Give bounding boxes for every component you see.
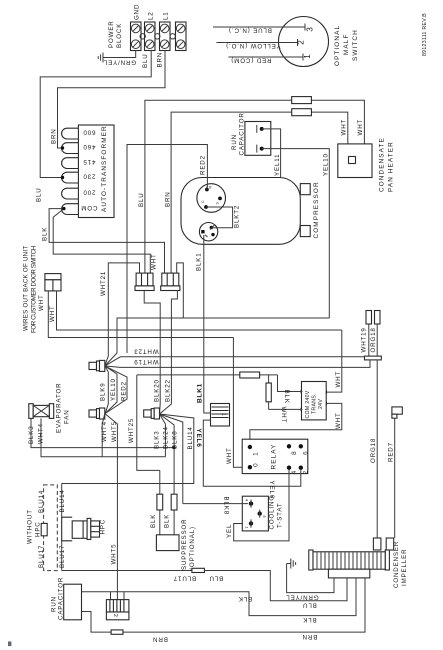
svg-text:BLK22: BLK22 [164,379,171,402]
svg-text:BLU14: BLU14 [59,489,66,512]
wire BLU17 HPC lead down [61,541,63,571]
bullet A fan wires down (BLK9 YEL10 RED2) [105,366,127,414]
compressor mount tab upper [300,184,310,195]
connector tab RED7 [392,407,402,418]
splice F3 on trans feed [240,372,260,378]
wire BRN run to pan heater (lower) [171,112,348,273]
svg-text:BLU14: BLU14 [38,490,45,513]
power block jumper circles [140,34,175,39]
splice BLU17/BLU [192,568,205,572]
svg-text:YEL10: YEL10 [323,153,330,176]
wire BLK3 evap fan lead [31,418,174,447]
junction dot at 460 tap [61,146,64,149]
power block PB1 [131,22,187,51]
svg-text:WHT21: WHT21 [100,271,107,296]
svg-text:WHT23: WHT23 [133,348,158,355]
junction dot at 230 tap [61,176,64,179]
svg-text:PAN HEATER: PAN HEATER [388,141,395,192]
svg-text:BLU17: BLU17 [173,575,196,582]
t-stat terminal 6 [258,511,262,515]
junction dot trans bottom-right [301,408,305,412]
svg-text:MALF: MALF [343,34,350,55]
wire WHT door switch left lead [48,291,233,338]
wire 230V output to conn1 right pin [53,209,150,274]
wire WHT23 from bullet A to splice [105,357,366,366]
wire ORG18 long run down [376,360,378,538]
splice F1 on BLU run [292,97,312,104]
dashed box WITHOUT HPC [44,485,58,571]
bullet C fan wires down (BLK3 BLK24 BLK8 BLU14) [62,414,194,504]
svg-text:RED7: RED7 [388,442,395,462]
wire RED7 run down [394,418,396,538]
wire WHT relay 0 feed [233,338,246,468]
svg-text:BRN: BRN [157,52,164,68]
blade terminal ORG18 bottom [373,538,381,550]
svg-text:WHT19: WHT19 [133,358,158,365]
svg-text:EVAPORATOR: EVAPORATOR [56,383,63,433]
svg-text:BRN: BRN [152,636,168,643]
svg-text:YEL11: YEL11 [274,154,281,176]
svg-text:BLK8: BLK8 [223,497,230,516]
relay terminal 1 [248,445,252,449]
wire BLK from COM tap down to conn2 [49,209,164,274]
compressor mount tab lower [300,226,310,237]
svg-text:BLK1: BLK1 [196,252,203,271]
plug P2 pin leads [111,592,125,600]
wire RED2 compressor R up and to bullet A [127,145,207,354]
svg-text:BLK: BLK [42,227,49,241]
svg-text:GRN/YEL: GRN/YEL [285,594,318,601]
svg-text:ORG18: ORG18 [370,327,377,352]
optional malf switch S2 body [279,17,329,67]
wire BLK to trans 240V input [137,374,278,376]
bullet B fan wires down (WHT4 WHT5 WHT25) [102,414,117,600]
svg-text:BLK: BLK [238,595,252,602]
svg-text:WHT4: WHT4 [101,421,108,442]
wire WHT21 from conn1 area down to bullet A [105,263,140,366]
splice bar WHT19/ORG18 [365,356,382,360]
splice on suppressor lead 1 [157,494,163,510]
wire conn1 bottom to bullet C (BLK20) [144,291,160,415]
svg-text:BLU: BLU [302,602,317,609]
svg-text:BRN: BRN [302,633,318,640]
run capacitor C1 terminal pins [256,125,258,153]
svg-text:(OPTIONAL): (OPTIONAL) [189,526,196,570]
wire BLU run to pan heater (upper) [145,100,365,273]
wire RED (COM) stub to terminal 1 [228,56,303,58]
svg-text:BLK8: BLK8 [171,430,178,449]
svg-text:WHT19: WHT19 [361,327,368,352]
svg-text:BLK1: BLK1 [197,383,204,403]
blade terminal WHT19 [366,311,372,325]
condensate pan heater HTR1 [338,144,372,178]
svg-text:POWER: POWER [108,20,115,48]
svg-text:YELLOW (N.O.): YELLOW (N.O.) [225,42,280,49]
wire YELLOW (N.O.) stub to terminal 2 [216,42,297,44]
svg-text:RELAY: RELAY [271,444,278,470]
plug P1 with pin 1 [211,404,230,427]
svg-text:COOLING: COOLING [269,495,276,530]
overload pin bottom-right [211,233,214,236]
svg-text:WHT: WHT [49,305,56,322]
cooling t-stat S1 box [242,496,268,531]
power block screws row 1 [131,24,185,33]
compressor overload circle [199,223,217,241]
svg-text:OPTIONAL: OPTIONAL [334,25,341,66]
svg-text:WHT: WHT [357,119,364,136]
svg-text:415: 415 [83,158,96,165]
compressor M1 outline [181,178,300,245]
svg-text:WHT5: WHT5 [111,421,118,442]
svg-text:YEL: YEL [226,524,233,538]
wire relay 4 to t-stat YEL [234,470,289,541]
svg-text:T-STAT: T-STAT [277,503,284,529]
svg-text:600: 600 [83,129,96,136]
svg-text:6: 6 [303,450,310,455]
wire YEL11 run cap to compressor S [222,129,281,199]
wire BLK run cap to impeller [82,578,357,616]
plug P2 with pin 2 [106,600,128,620]
svg-text:BLUE (N.C.): BLUE (N.C.) [228,27,272,34]
svg-text:89123111 REV.B: 89123111 REV.B [422,13,428,56]
wire BRN run cap to impeller [82,578,366,632]
malf switch terminal 1 bar [302,54,304,61]
svg-text:YEL10: YEL10 [110,378,117,401]
svg-text:BLU: BLU [142,53,149,68]
svg-text:WHT: WHT [151,253,158,270]
svg-text:BLU17: BLU17 [38,545,45,568]
overload pin left [201,230,204,233]
chassis ground (impeller) [287,559,296,570]
svg-text:200: 200 [83,189,96,196]
svg-text:WHT: WHT [226,447,233,464]
t-stat terminal 4 [249,501,253,505]
svg-text:BLU: BLU [138,192,145,207]
auto-transformer T1 box [78,125,114,218]
svg-text:2: 2 [112,614,118,617]
splice on suppressor lead 2 [171,494,177,510]
page edge marks [8,642,11,647]
svg-text:BLKT2: BLKT2 [234,205,241,228]
wire GRN/YEL from PB1 col1 to chassis ground [107,51,136,58]
svg-text:2: 2 [297,40,306,45]
compressor plug conn2 [161,273,180,290]
svg-text:4: 4 [291,470,298,475]
svg-text:8: 8 [291,450,298,455]
svg-text:BLU: BLU [36,187,43,202]
svg-text:2: 2 [303,470,310,475]
evaporator fan motor B1 [29,404,54,419]
wire YEL10 run cap down right side [262,149,330,318]
wire BRN from PB1 col3 to transformer 460 tap [58,51,166,149]
wire WHT25 suppressor feed run [137,375,160,471]
svg-text:COM 240V: COM 240V [305,390,311,418]
terminal S dot [218,197,222,201]
blade terminal ORG18 [375,311,381,325]
wire BLK1 from overload down to plug P1 [204,235,211,413]
wire WHT4 evap fan lead [41,418,165,456]
wire conn2 right pin loop [177,263,184,318]
condenser impeller fins [317,552,381,569]
svg-text:RED2: RED2 [120,381,127,401]
transformer tap coil bumps [62,128,79,214]
svg-text:YEL6: YEL6 [195,428,202,447]
wire suppressor lead 1 [159,470,161,534]
inline resistor/fuse vertical [268,375,270,410]
door switch connector J1 [45,274,61,291]
svg-text:BLK20: BLK20 [153,379,160,402]
svg-text:WHT: WHT [335,371,342,388]
svg-text:BLU17: BLU17 [59,545,66,568]
wire WHT19 from bullet A to splice [105,359,370,367]
svg-text:IMPELLER: IMPELLER [401,549,408,586]
svg-text:SWITCH: SWITCH [352,29,359,61]
splice on BRN [111,630,123,634]
relay terminal 2 [299,466,303,470]
suppressor Z1 box [156,535,179,551]
svg-text:RED2: RED2 [200,155,207,175]
svg-text:CONDENSATE: CONDENSATE [379,137,386,192]
wire BLKT2 from C to overload [206,207,233,228]
terminal C dot [204,205,208,209]
svg-text:24V: 24V [318,399,324,409]
svg-text:CAPACITOR: CAPACITOR [239,112,246,155]
svg-text:RUN: RUN [51,596,58,612]
svg-text:BLK: BLK [283,390,290,404]
terminal R dot [205,188,209,192]
condenser impeller M2 body [309,550,390,578]
compressor plug conn1 [135,273,154,290]
svg-text:COMPRESSOR: COMPRESSOR [313,181,320,238]
svg-text:COM: COM [81,204,98,211]
wire relay 1 to 240V trans 24V side [250,403,342,443]
transformer T2 240V/24V box [302,382,327,420]
svg-text:WITHOUT: WITHOUT [27,509,34,544]
svg-text:RED (COM): RED (COM) [231,57,272,64]
svg-text:AUTO-TRANSFORMER: AUTO-TRANSFORMER [101,125,108,212]
wire ORG18 terminal lead [376,324,378,356]
chassis ground symbol [98,53,107,63]
wire suppressor lead 2 [173,494,175,535]
svg-text:WHT5: WHT5 [111,544,118,565]
svg-text:230: 230 [83,173,96,180]
svg-text:BRN: BRN [165,191,172,207]
svg-text:WHT: WHT [38,294,45,311]
svg-text:WHT: WHT [335,412,342,429]
svg-text:BLU: BLU [209,575,224,582]
svg-text:WHT25: WHT25 [128,418,135,443]
svg-text:BLK24: BLK24 [163,426,170,449]
svg-text:BLK: BLK [164,514,171,528]
svg-text:BLK3: BLK3 [154,430,161,449]
svg-text:SUPPRESSOR: SUPPRESSOR [181,519,188,570]
bullet connector C [144,408,160,419]
svg-text:BLU14: BLU14 [187,426,194,449]
wire YEL10 horizontal run [105,318,329,366]
svg-text:C: C [201,200,205,203]
svg-text:GRN/YEL: GRN/YEL [103,59,136,66]
wire WHT door switch right lead [57,291,342,330]
svg-text:BLK3: BLK3 [28,425,35,444]
wire WHT trans left bottom stub [269,408,303,410]
svg-text:1: 1 [253,451,260,456]
wire WHT vertical x341.8 (door circuit to 240V trans) [325,330,342,392]
svg-text:WHT4: WHT4 [38,423,45,444]
svg-text:BLK: BLK [150,514,157,528]
wire WHT19 terminal lead [368,324,370,356]
wire BLK8 to t-stat [183,503,248,505]
compressor motor terminal circle [197,184,226,213]
bullet connector A [89,360,105,371]
blade terminal RED7 bottom [386,538,394,550]
malf switch terminal 3 bar [304,24,306,31]
wire from fuse to trans left top [278,375,303,392]
svg-text:WHT: WHT [280,406,287,423]
run capacitor C2 box [64,584,82,620]
svg-text:1: 1 [220,413,226,416]
svg-text:460: 460 [83,143,96,150]
splice on WITHOUT HPC wire [41,523,47,535]
malf switch terminal 2 bar [297,39,299,46]
wire conn2 bottom to bullet C (BLK22) [160,291,178,415]
svg-text:L1: L1 [163,11,170,20]
svg-text:BLK: BLK [302,616,316,623]
overload pin top-right [210,226,213,229]
relay K1 box [242,439,308,473]
svg-text:HPC: HPC [100,519,107,535]
relay terminal 4 [287,466,291,470]
svg-text:WIRES OUT BACK OF UNIT: WIRES OUT BACK OF UNIT [23,245,30,331]
wire BLU17 bottom run to splice [62,570,192,572]
svg-text:GND: GND [134,4,141,20]
svg-text:R: R [209,186,213,189]
svg-text:0: 0 [253,462,260,467]
svg-text:BLK9: BLK9 [100,382,107,401]
t-stat terminal 1 [249,521,253,525]
wire YEL6 from plug P1 to relay 2 [203,420,300,486]
relay terminal 8 [287,444,291,448]
wire GRN/YEL impeller to chassis ground [287,569,334,593]
high pressure control HPC [62,517,100,541]
svg-text:WHT: WHT [341,119,348,136]
wire BLU from PB1 col2 to transformer 230 tap [40,51,151,178]
svg-text:FOR CUSTOMER DOOR SWITCH: FOR CUSTOMER DOOR SWITCH [31,245,38,333]
power block screws row 2 [131,40,185,49]
svg-text:L2: L2 [148,11,155,20]
wire BLUE (N.C.) stub to terminal 3 [213,26,305,28]
wire BLU14 HPC lead down [61,484,63,518]
relay terminal 0 [248,465,252,469]
svg-text:BRN: BRN [51,128,58,144]
junction dot trans top-right [301,390,305,394]
relay terminal 6 [299,444,303,448]
run capacitor C1 box [245,122,271,156]
svg-text:1: 1 [303,54,312,59]
svg-text:FAN: FAN [64,409,71,424]
svg-text:TRANS.: TRANS. [312,393,318,414]
svg-text:CAPACITOR: CAPACITOR [58,577,65,620]
svg-text:ORG18: ORG18 [370,438,377,463]
bullet connector B [89,408,105,419]
wire BLU run to impeller [204,571,347,601]
svg-text:RUN: RUN [231,134,238,150]
svg-text:3: 3 [306,27,315,32]
svg-text:BLOCK: BLOCK [116,23,123,48]
svg-text:HPC: HPC [35,521,42,537]
svg-text:CONDENSER: CONDENSER [393,541,400,588]
splice F2 on BRN run [292,109,312,116]
